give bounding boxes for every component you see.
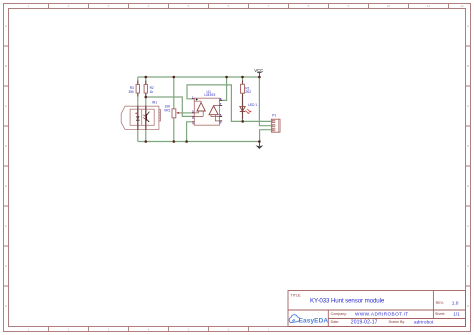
svg-text:A: A: [467, 24, 469, 28]
svg-text:VCC: VCC: [254, 68, 264, 73]
IR sensor IR1: [121, 101, 160, 130]
svg-text:12: 12: [460, 4, 464, 8]
svg-text:adrirobot: adrirobot: [414, 320, 434, 325]
wire LED node to P1 pin1: [243, 120, 272, 122]
pin stubs right: [220, 100, 223, 121]
svg-text:VR1: VR1: [164, 108, 170, 112]
ground: [256, 142, 264, 150]
wire R2/phototransistor column: [145, 77, 147, 142]
svg-text:P1: P1: [272, 114, 276, 118]
sensor tab: [159, 109, 161, 121]
svg-text:2019-02-17: 2019-02-17: [351, 320, 378, 326]
svg-text:REV:: REV:: [436, 301, 444, 305]
wire VR1 column: [173, 77, 175, 142]
node junction U1 pin8 rail: [225, 76, 228, 79]
svg-text:Drawn By:: Drawn By:: [389, 320, 406, 324]
svg-text:IR1: IR1: [152, 101, 157, 105]
node junction VR1 bottom: [173, 140, 176, 143]
svg-text:LM393: LM393: [204, 93, 215, 97]
junction dots: [145, 76, 261, 143]
svg-text:Date:: Date:: [331, 320, 340, 324]
wire U1 pin8 to VCC rail: [220, 77, 227, 100]
pin numbers: [192, 95, 222, 125]
svg-text:11: 11: [427, 4, 430, 8]
op-amp U1 LM393: [192, 90, 222, 126]
wire VR1 wiper to U1 pin2: [180, 112, 192, 114]
svg-text:LED 1: LED 1: [248, 103, 257, 107]
svg-text:1/1: 1/1: [453, 312, 460, 317]
wire VCC symbol down to P1 pin2: [259, 77, 271, 126]
wire node sense to U1 pin3: [146, 97, 192, 116]
resistor R1: [241, 81, 252, 97]
svg-text:1k: 1k: [150, 90, 154, 94]
EasyEDA logo: [289, 315, 328, 325]
svg-text:KY-033 Hunt sensor module: KY-033 Hunt sensor module: [310, 297, 385, 304]
svg-text:10: 10: [387, 4, 391, 8]
LED1: [240, 97, 257, 120]
wire U1 pin4 to ground rail: [187, 122, 192, 142]
svg-text:H: H: [467, 304, 469, 308]
op-amp B triangle: [209, 106, 218, 115]
wire P1 pin3 to ground: [260, 130, 272, 142]
svg-text:E: E: [467, 184, 469, 188]
svg-text:Company:: Company:: [331, 312, 347, 316]
svg-text:390: 390: [128, 90, 134, 94]
resistor R2: [144, 81, 154, 97]
node junction emitter bottom: [145, 140, 148, 143]
wire R3/LED column: [137, 77, 139, 142]
wire bottom GND rail: [138, 141, 260, 143]
node junction VCC stem: [258, 76, 261, 79]
resistor R3: [128, 81, 139, 97]
node junction R1 top: [241, 76, 244, 79]
svg-text:EasyEDA: EasyEDA: [299, 318, 329, 325]
svg-text:2K2: 2K2: [245, 90, 251, 94]
svg-text:A: A: [5, 24, 7, 28]
svg-text:Sheet:: Sheet:: [435, 312, 445, 316]
power VCC: [254, 68, 264, 77]
svg-text:F: F: [5, 224, 7, 228]
node junction sense divider: [145, 96, 148, 99]
wire R1/LED column: [242, 77, 244, 121]
svg-text:WWW.ADRIROBOT.IT: WWW.ADRIROBOT.IT: [355, 312, 409, 317]
svg-text:B: B: [5, 64, 7, 68]
node junction U1 pin4 bottom: [185, 140, 188, 143]
potentiometer VR1: [164, 105, 180, 118]
node junction R2 top: [145, 76, 148, 79]
connector P1: [271, 114, 280, 133]
pin 1 dot: [196, 99, 198, 101]
svg-text:H: H: [5, 304, 7, 308]
node junction LED output: [241, 120, 244, 123]
svg-text:F: F: [467, 224, 469, 228]
wire top VCC rail: [138, 76, 260, 78]
svg-text:1.0: 1.0: [452, 301, 459, 307]
sensor LED: [136, 116, 139, 120]
op-amp A triangle: [197, 103, 205, 111]
sensor through-leads: [138, 106, 146, 130]
svg-text:TITLE:: TITLE:: [291, 293, 302, 297]
pin stubs left: [192, 99, 194, 122]
node junction VR1 top: [173, 76, 176, 79]
svg-text:B: B: [467, 64, 469, 68]
node junction ground: [258, 140, 261, 143]
sensor phototransistor: [145, 114, 147, 121]
wire U1 pin1 output loop to LED node: [187, 85, 243, 122]
svg-text:E: E: [5, 184, 7, 188]
